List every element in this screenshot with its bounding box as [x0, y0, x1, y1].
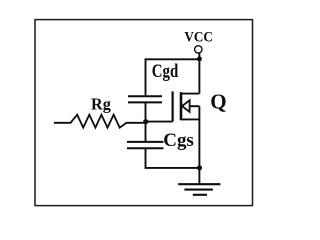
svg-text:Q: Q — [210, 89, 226, 113]
svg-text:Cgs: Cgs — [163, 130, 194, 151]
svg-text:Cgd: Cgd — [152, 61, 179, 82]
svg-text:Rg: Rg — [91, 94, 111, 113]
svg-text:VCC: VCC — [184, 30, 213, 46]
